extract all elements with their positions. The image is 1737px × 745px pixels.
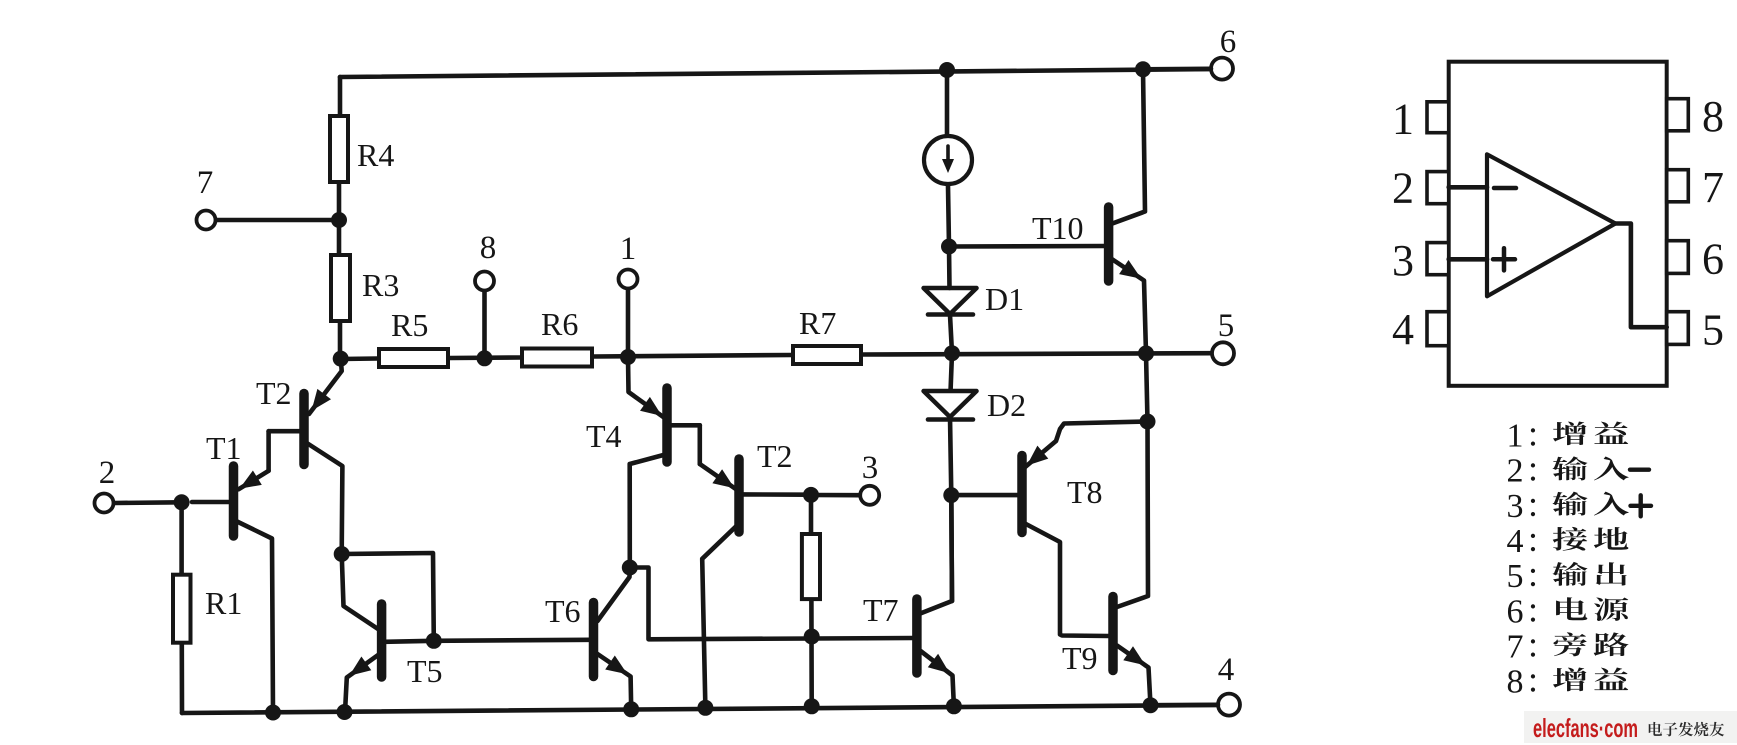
svg-text:D2: D2 [987,387,1026,423]
svg-text:5: 5 [1507,558,1524,595]
svg-text::: : [1528,484,1538,524]
svg-text::: : [1528,660,1538,700]
svg-text:3: 3 [1392,236,1414,285]
svg-text:4: 4 [1507,523,1524,560]
svg-text:7: 7 [1702,163,1724,212]
svg-text:5: 5 [1702,305,1724,354]
svg-text:T5: T5 [407,653,443,689]
svg-text:R7: R7 [799,305,836,341]
svg-text:6: 6 [1220,24,1237,60]
svg-text:1: 1 [1507,418,1524,455]
svg-text:R5: R5 [391,307,428,343]
svg-text:1: 1 [620,231,637,267]
svg-text:3: 3 [862,450,879,486]
svg-text:4: 4 [1392,305,1414,354]
svg-text:7: 7 [197,165,214,201]
svg-text:6: 6 [1507,593,1524,630]
svg-text:2: 2 [99,455,116,491]
svg-text:T6: T6 [545,593,581,629]
svg-text::: : [1528,449,1538,489]
svg-text:1: 1 [1392,95,1414,144]
svg-text::: : [1528,519,1538,559]
svg-text::: : [1528,554,1538,594]
svg-text:R6: R6 [541,306,578,342]
svg-text:4: 4 [1218,652,1235,688]
svg-text::: : [1528,624,1538,664]
svg-text:2: 2 [1392,163,1414,212]
svg-text::: : [1528,414,1538,454]
svg-text:D1: D1 [985,281,1024,317]
svg-text:T7: T7 [863,592,899,628]
svg-text:T1: T1 [206,430,242,466]
svg-text:8: 8 [480,230,497,266]
svg-text::: : [1528,589,1538,629]
svg-text:T9: T9 [1062,640,1098,676]
svg-text:T8: T8 [1067,474,1103,510]
svg-text:T4: T4 [586,418,622,454]
svg-text:8: 8 [1702,92,1724,141]
svg-text:8: 8 [1507,664,1524,701]
svg-text:7: 7 [1507,628,1524,665]
svg-text:3: 3 [1507,488,1524,525]
svg-text:T2: T2 [757,438,793,474]
svg-text:R4: R4 [357,137,394,173]
svg-text:T2: T2 [256,375,292,411]
svg-text:R1: R1 [205,585,242,621]
svg-text:2: 2 [1507,453,1524,490]
svg-text:5: 5 [1218,308,1235,344]
svg-text:T10: T10 [1032,210,1084,246]
svg-text:6: 6 [1702,235,1724,284]
svg-text:elecfans·com: elecfans·com [1533,713,1638,743]
svg-text:R3: R3 [362,267,399,303]
